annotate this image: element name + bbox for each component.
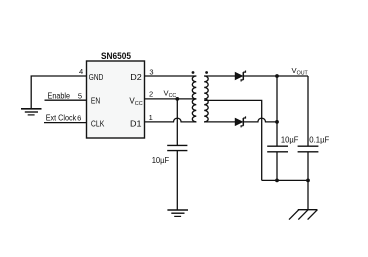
svg-text:1: 1 [149, 113, 153, 122]
pin label D1 (pin 1) [130, 120, 142, 129]
value label 10uF (C1) [152, 156, 170, 165]
transformer T1 secondary winding [204, 76, 208, 122]
pin number 5 [78, 91, 82, 100]
junction dot diode D2 / rail [275, 120, 279, 124]
node VOUT label [292, 66, 309, 76]
pin number 4 [79, 67, 83, 76]
pin label CLK (pin 6) [91, 120, 105, 129]
wire pin4 GND to ground [31, 76, 86, 109]
label Enable [48, 91, 71, 100]
svg-text:4: 4 [79, 67, 83, 76]
svg-text:2: 2 [149, 89, 153, 98]
wire bottom bus [262, 179, 308, 181]
ground G1 (signal ground, left) [21, 109, 42, 115]
wire secondary center tap to return line [204, 100, 262, 180]
polarity dot primary [192, 71, 195, 74]
pin number 2 [149, 89, 153, 98]
wire secondary top to diode D1 [204, 75, 235, 77]
polarity dot secondary [205, 71, 208, 74]
junction dot VOUT [275, 74, 279, 78]
svg-text:CLK: CLK [91, 120, 105, 129]
svg-text:SN6505: SN6505 [101, 51, 132, 62]
wire VOUT rail down through C2 [276, 76, 278, 146]
svg-text:GND: GND [89, 73, 104, 82]
svg-text:10µF: 10µF [281, 136, 299, 145]
chassis ground G3 [289, 210, 317, 220]
capacitor C1 10uF [167, 145, 187, 150]
wire pin1 D1 to primary bottom (hop over C1 stem) [145, 118, 197, 122]
wire C2 to bottom bus [276, 152, 278, 181]
transformer T1 primary winding [192, 76, 196, 122]
wire bus to chassis ground [307, 180, 309, 209]
pin label VCC (pin 2) [129, 97, 142, 107]
wire diode D1 to VOUT node [243, 75, 308, 77]
label Ext Clock [46, 114, 77, 123]
wire C3 to bottom bus [307, 152, 309, 181]
svg-text:Enable: Enable [48, 91, 71, 100]
diode D1 (schottky, top) [235, 71, 245, 82]
svg-text:Ext Clock: Ext Clock [46, 114, 77, 123]
wire pin2 VCC to primary center tap [145, 98, 197, 100]
svg-text:10µF: 10µF [152, 156, 170, 165]
wire secondary bottom to diode D2 [204, 121, 235, 123]
wire Ext Clock to pin 6 [44, 122, 87, 124]
value label 0.1uF (C3) [309, 136, 329, 145]
svg-text:3: 3 [149, 67, 153, 76]
pin number 3 [149, 67, 153, 76]
capacitor C3 0.1uF [298, 146, 319, 152]
pin number 1 [149, 113, 153, 122]
svg-text:6: 6 [77, 114, 81, 123]
wire VCC junction down to C1 [176, 99, 178, 145]
node VCC label [164, 89, 177, 99]
junction dot bus/C3 [306, 179, 310, 183]
junction dot VCC [175, 97, 179, 101]
op-amp U1 SN6505 body [87, 51, 145, 138]
capacitor C2 10uF [267, 146, 288, 152]
svg-text:5: 5 [78, 91, 82, 100]
wire Enable to pin 5 [45, 99, 87, 101]
svg-text:D2: D2 [130, 73, 142, 82]
junction dot bus/C2 [275, 179, 279, 183]
ground G2 (signal ground under C1) [167, 210, 188, 216]
diode D2 (schottky, bottom) [235, 116, 245, 127]
pin label GND (pin 4) [89, 73, 104, 82]
value label 10uF (C2) [281, 136, 299, 145]
wire C1 to ground [176, 151, 178, 210]
svg-text:0.1µF: 0.1µF [309, 136, 329, 145]
pin label EN (pin 5) [91, 97, 100, 106]
svg-text:EN: EN [91, 97, 100, 106]
wire VOUT corner down through C3 [307, 76, 309, 146]
pin number 6 [77, 114, 81, 123]
pin label D2 (pin 3) [130, 73, 142, 82]
svg-text:D1: D1 [130, 120, 142, 129]
wire pin3 D2 to transformer primary top [145, 75, 197, 77]
wire diode D2 to rail (hop over return line) [243, 118, 277, 122]
